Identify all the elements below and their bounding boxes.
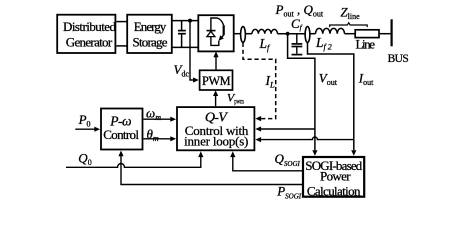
svg-text:Lf: Lf <box>259 36 272 53</box>
svg-text:Lf 2: Lf 2 <box>315 35 332 52</box>
svg-text:Zline: Zline <box>340 4 360 21</box>
svg-text:Q0: Q0 <box>78 150 91 167</box>
svg-text:Control: Control <box>103 127 139 142</box>
svg-text:Vpwm: Vpwm <box>227 91 244 106</box>
svg-text:Iout: Iout <box>358 70 374 87</box>
svg-text:Distributed: Distributed <box>63 19 117 34</box>
svg-text:IL: IL <box>265 73 276 90</box>
svg-text:Cf: Cf <box>291 16 303 32</box>
svg-text:Storage: Storage <box>133 35 168 50</box>
svg-text:PWM: PWM <box>202 74 231 88</box>
svg-text:inner loop(s): inner loop(s) <box>184 134 248 149</box>
svg-text:Calculation: Calculation <box>307 183 361 198</box>
svg-text:Line: Line <box>356 37 376 52</box>
svg-text:Vdc: Vdc <box>174 62 190 79</box>
svg-text:P0: P0 <box>78 112 91 129</box>
svg-text:QSOGI: QSOGI <box>275 151 301 168</box>
svg-text:Power: Power <box>320 168 351 183</box>
svg-text:BUS: BUS <box>388 53 409 65</box>
svg-text:Energy: Energy <box>134 19 167 34</box>
svg-text:Generator: Generator <box>66 35 113 50</box>
svg-text:ωm: ωm <box>146 106 161 123</box>
svg-text:Vout: Vout <box>319 70 338 87</box>
svg-text:P-ω: P-ω <box>109 113 131 128</box>
svg-text:PSOGI: PSOGI <box>276 184 302 201</box>
svg-text:θm: θm <box>147 127 159 144</box>
